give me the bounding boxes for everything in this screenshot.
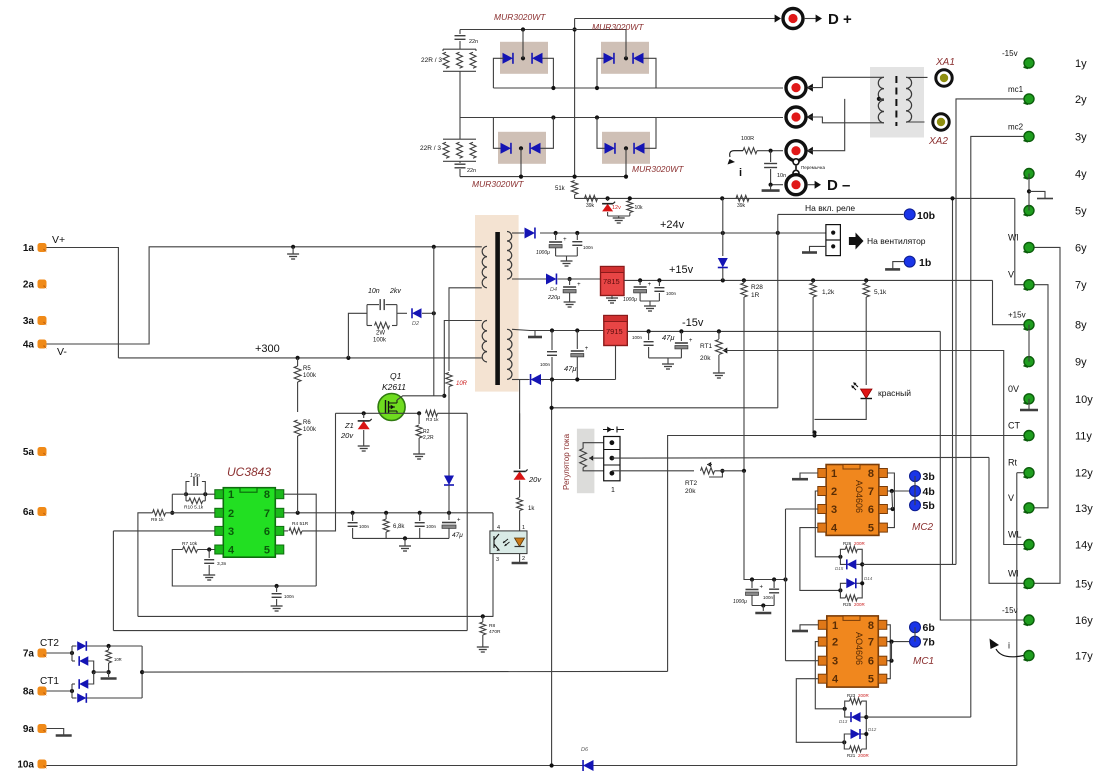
svg-text:4y: 4y [1075,169,1087,181]
svg-text:100k: 100k [373,338,387,344]
svg-text:R23: R23 [847,693,856,698]
current arrow i top [730,151,743,157]
svg-text:20v: 20v [340,431,354,440]
svg-text:47μ: 47μ [452,532,463,539]
svg-text:6: 6 [868,656,874,668]
svg-text:3: 3 [832,656,838,668]
ground 100n loop [276,604,278,606]
ground Vcc caps [404,538,406,544]
capacitor 1000u +15v [639,280,641,285]
diode D15 [847,559,857,569]
svg-text:Z1: Z1 [344,421,354,430]
wire MC2 network output [862,563,956,565]
wire MC2 pin1 ground [800,473,818,479]
svg-text:20k: 20k [685,488,696,495]
resistor 51k [571,181,577,195]
wire R7 loop [172,550,316,587]
wire V+ from pad 1a [47,248,119,358]
wire CT 11y [668,436,1024,672]
svg-text:CT2: CT2 [40,638,59,649]
svg-text:6a: 6a [23,507,35,518]
ground -15v caps [667,358,669,362]
pad 9y [1024,357,1034,367]
wire drain stub [397,396,444,400]
svg-text:8: 8 [868,620,874,632]
wire 12y stub [1017,472,1024,474]
svg-text:8: 8 [868,468,874,480]
pad 4b [910,486,921,497]
zener Z1 20v [363,413,365,418]
CT2 branch vertical [71,646,73,661]
pad 16y [1024,615,1034,625]
svg-text:3a: 3a [23,316,35,327]
svg-text:7b: 7b [923,637,935,649]
transformer core [495,232,500,385]
wire winding top lead left [830,76,884,78]
svg-text:100k: 100k [303,373,317,379]
IC MC2 AO4606 [826,465,879,536]
diode D7 feedback [531,374,541,385]
svg-text:+: + [760,585,764,591]
svg-text:R28: R28 [751,284,763,291]
snubber box wires [366,305,368,326]
svg-text:+: + [585,346,589,352]
svg-text:R9 1k: R9 1k [151,517,164,523]
wire CT output to 11y riser [142,670,668,673]
wire +15v cap bus [640,300,659,302]
svg-text:47μ: 47μ [662,333,674,342]
wire snubber right to D2 [397,312,407,314]
wire pin3 [113,530,214,532]
svg-text:+: + [457,518,461,524]
RT2 wiper [707,462,711,467]
svg-text:4: 4 [831,523,838,535]
svg-text:Перемычка: Перемычка [801,165,825,170]
wire CS loop right vertical [466,413,468,630]
svg-text:AO4606: AO4606 [854,632,864,665]
pin1 compensation network [186,493,215,495]
svg-text:200R: 200R [854,602,866,607]
wire 6b-7b link [914,627,916,641]
svg-text:3: 3 [228,526,234,538]
capacitor 220u [568,277,572,281]
svg-text:12y: 12y [1075,468,1093,480]
pad 3b [910,471,921,482]
resistor R25 200R [845,595,857,601]
svg-text:CT: CT [1008,421,1020,431]
connector output 2 [786,78,806,98]
wire 22R bank to lower rail [459,71,461,117]
wire 100R to connector4 [757,150,783,152]
svg-text:D –: D – [827,177,850,194]
svg-text:5,1k: 5,1k [874,289,887,296]
current transformer box [870,67,924,138]
svg-text:7815: 7815 [603,277,620,286]
svg-text:2,2R: 2,2R [423,435,434,441]
svg-text:+15v: +15v [669,264,694,276]
wire mc1 2y to MC2 switch [956,99,1024,565]
resistor R9 1k [153,510,166,516]
wire bottom rail [47,765,1017,767]
capacitor 47u -15v [680,331,682,341]
svg-text:R21: R21 [847,753,856,758]
connector XA1 [936,70,952,86]
jumper stub at 5y [1029,191,1045,198]
wire MC2 pin6 join [887,508,892,510]
svg-text:13y: 13y [1075,503,1093,515]
capacitor 3.3n [208,550,210,559]
wire feedback left vertical [138,513,153,617]
wire block1 left lead [493,58,502,88]
capacitor 100n Vcc-b [419,513,421,521]
capacitor 100n -15v [648,331,650,340]
wire block4 left lead [597,118,605,149]
resistor R8 470R [481,614,485,618]
resistor R3 1k [426,410,438,416]
svg-text:6y: 6y [1075,242,1087,254]
svg-text:Q1: Q1 [390,371,402,381]
pad 14y [1024,540,1034,550]
svg-text:51k: 51k [555,186,566,192]
transformer band [475,215,519,392]
pad 1y [1024,58,1034,68]
resistor R26 200R [845,546,857,552]
svg-text:R6: R6 [303,420,311,426]
svg-text:D12: D12 [868,727,877,732]
wire 4y-5y link [1028,174,1030,211]
node D2 junction [432,311,436,315]
svg-text:K2611: K2611 [382,382,406,392]
wire CT output vertical [141,646,143,698]
wire primary upper-bottom lead to 10R bus [449,288,482,371]
wire secondary top lead [512,232,524,234]
wire reg mid to 15y [612,456,989,459]
svg-text:1a: 1a [23,243,35,254]
svg-text:7: 7 [868,486,874,498]
pad 5b [910,500,921,511]
CT2 diode lower [72,660,75,662]
svg-text:1R: 1R [751,292,760,299]
ground CT res [108,672,110,677]
wire +15v to 8y [993,280,1024,324]
connector output 3 [786,107,806,127]
svg-text:-15v: -15v [1002,49,1018,58]
svg-text:+300: +300 [255,343,280,355]
svg-text:47μ: 47μ [564,364,576,373]
wire primary lower-top lead [444,321,482,396]
capacitor 100n pin5 loop [275,584,279,588]
wire MC2 pin3 left [786,508,818,510]
wire 8y-9y link [1028,325,1030,362]
svg-text:10n: 10n [777,173,786,179]
capacitor 47u Vcc [448,513,450,520]
svg-text:2y: 2y [1075,94,1087,106]
wire 7915 bottom pin [615,346,617,380]
wire 7a CT2 [47,652,73,654]
wire secondary bottom lead [512,379,528,381]
svg-text:10k: 10k [635,205,644,211]
svg-text:+: + [563,237,567,243]
svg-text:3b: 3b [923,471,935,483]
svg-text:3y: 3y [1075,131,1087,143]
svg-text:11y: 11y [1075,431,1092,443]
svg-text:8: 8 [264,489,270,501]
svg-text:10R: 10R [114,657,122,662]
svg-text:5y: 5y [1075,206,1087,218]
svg-text:100R: 100R [741,136,754,142]
svg-text:V-: V- [57,346,67,358]
wire R4 to gate rail [302,413,336,531]
wire MC1 pin7 to 7b [887,641,909,643]
svg-text:mc1: mc1 [1008,85,1024,94]
svg-text:MC2: MC2 [912,522,934,533]
svg-text:16y: 16y [1075,615,1093,627]
wire Vcc cap bus [353,537,449,539]
resistor 39k #2 [720,196,724,200]
box Регулятор тока [577,429,595,494]
wire +300 rail [118,357,481,359]
wire feedback bottom rail [138,615,494,617]
wire secondary row3 lead [512,329,530,330]
svg-text:200R: 200R [858,753,870,758]
svg-text:5: 5 [868,674,874,686]
wire snubber left leg [348,313,367,358]
wire 10b [778,213,904,215]
svg-text:100n: 100n [540,362,551,367]
pad 12y [1024,468,1034,478]
resistor 1.2k [810,283,816,297]
svg-text:UC3843: UC3843 [227,465,271,479]
wire -15v rail [627,330,940,332]
wire reg bottom to RT2 [612,470,694,472]
svg-text:Wl: Wl [1008,232,1019,242]
svg-text:100n: 100n [666,291,677,296]
svg-text:15y: 15y [1075,578,1093,590]
svg-text:9y: 9y [1075,357,1087,369]
svg-text:5b: 5b [923,500,935,512]
regulator 7815 [601,267,625,296]
wire Vcc rail to opto pin4 [492,513,494,531]
svg-text:12v: 12v [612,205,621,211]
svg-text:7: 7 [264,508,270,520]
svg-text:7y: 7y [1075,280,1087,292]
svg-text:1y: 1y [1075,58,1087,70]
pad 11y [1024,431,1034,441]
svg-text:1,2k: 1,2k [822,289,835,296]
pad 10b [904,209,915,220]
MC1 diode network box [845,701,851,717]
svg-text:MC1: MC1 [913,656,934,667]
resistor RT2 20k [701,468,715,474]
wire CT2 lower to mid node [88,661,94,672]
wire rail to connector2 arrow [807,84,813,92]
zener 20v opto [514,471,526,479]
diode block tan box 1 [500,42,548,74]
wire XA1 lead [906,76,928,78]
fan arrow [849,233,864,250]
svg-text:10n: 10n [368,288,380,295]
svg-text:200R: 200R [854,541,866,546]
wire gate-source rail y=413.3 [336,412,422,414]
svg-text:4: 4 [497,525,500,531]
svg-text:100n: 100n [284,594,295,599]
CT1 branch vertical [71,684,73,698]
wire block3 right lead [541,118,554,149]
connector XA2 [933,114,949,130]
pad 2y [1024,94,1034,104]
svg-text:R5: R5 [303,366,311,372]
svg-text:22R / 3: 22R / 3 [421,57,442,64]
pad 10y [1024,394,1034,404]
resistor R5 100k [294,366,301,382]
svg-text:mc2: mc2 [1008,122,1024,131]
wire top group cathode rail y=29.5 [460,29,626,31]
pad 7b [910,636,921,647]
svg-text:i: i [1008,641,1010,651]
svg-text:R10 5.1k: R10 5.1k [184,505,204,511]
resistor 10k aux [628,196,632,200]
svg-text:7a: 7a [23,649,35,660]
diode D4 [546,274,556,285]
diode pair 1 (MUR3020WT) [503,53,513,64]
optocoupler U2 [490,531,527,554]
svg-text:2W: 2W [376,331,385,337]
pad 6b [910,622,921,633]
resistor 2W 100k [367,325,372,327]
svg-text:XA1: XA1 [935,57,955,68]
ground RT1 [718,371,720,373]
svg-text:1: 1 [831,468,837,480]
wire MC2 pin4 to network [800,528,841,591]
resistor R7 10k [183,547,198,553]
wire 10b riser [777,214,779,407]
diode block tan box 2 [601,42,649,74]
diode pair 2 (MUR3020WT) [604,53,614,64]
pad 3y [1024,131,1034,141]
resistor R28 1R [741,283,747,297]
diode pair 3 (MUR3020WT) [501,143,511,154]
connector reg [604,437,620,481]
svg-text:V+: V+ [52,234,65,246]
transformer secondary winding upper [507,232,512,242]
wire MC1 network output [866,716,971,718]
zener 12v [606,196,610,200]
wire anode rail y=88 to connector 2 [493,87,783,89]
ground 3.3n [208,573,210,575]
wire CT1 upper to mid node [88,672,94,684]
svg-text:D4: D4 [550,287,557,293]
ground bar under 10n [770,185,772,191]
svg-text:2: 2 [522,556,525,562]
wire lower cathode rail y=176.6 [460,176,626,178]
svg-text:+24v: +24v [660,219,685,231]
svg-text:RT1: RT1 [700,343,713,350]
wire riser to 0V bus [552,407,778,409]
IC MC1 AO4606 [827,616,879,687]
svg-text:R3 1k: R3 1k [426,417,439,423]
svg-text:R26: R26 [843,541,852,546]
ground aux [608,215,630,217]
resistor R2 2.2R [418,413,420,424]
svg-text:i: i [739,167,742,179]
node primary top / D2 bus [432,245,436,249]
arrow to D+ label [804,18,817,20]
svg-text:2a: 2a [23,280,35,291]
svg-text:39k: 39k [586,203,595,209]
svg-text:3,3n: 3,3n [217,561,227,567]
svg-text:100n: 100n [359,524,370,529]
transformer primary winding upper [482,246,487,256]
ground R2 [418,452,420,454]
wire vertical bus x=574.6 [574,19,576,177]
svg-text:6b: 6b [923,622,935,634]
svg-text:17y: 17y [1075,651,1093,663]
svg-text:4: 4 [832,674,839,686]
svg-text:V: V [1008,493,1014,503]
wire 8a CT1 [47,690,73,692]
svg-text:R25: R25 [843,602,852,607]
wire D4 to 7815 [558,278,602,280]
wire bottom row [541,379,616,381]
svg-text:D14: D14 [864,576,873,581]
pad 13y [1024,503,1034,513]
LED красный [861,389,873,399]
RT1 wiper wire to 14y [723,348,728,354]
svg-text:4a: 4a [23,340,35,351]
ground MC caps [762,606,764,612]
pad 17y [1024,651,1034,661]
wire MC2 pin7 to 4b [887,490,909,492]
svg-text:20v: 20v [528,475,542,484]
wire block3 left lead [493,118,500,149]
svg-text:R7 10k: R7 10k [182,541,198,547]
wire CT mid node [94,671,109,673]
svg-text:7915: 7915 [606,327,623,336]
svg-text:6,8k: 6,8k [393,524,405,530]
svg-text:D +: D + [828,11,852,28]
svg-text:CT1: CT1 [40,676,59,687]
wire relay lower stub [810,246,826,252]
connector D- [786,175,806,195]
resistor R23 200R [850,698,862,704]
wire lower group rail y=117.5 to connector 3 [460,117,783,119]
svg-text:На вентилятор: На вентилятор [867,236,926,246]
transistor Q1 K2611 [378,394,405,421]
wire transformer tap to connector4 arrow [807,147,813,155]
wire MC2 pin2 to network [815,491,840,557]
MC2 diode network box [840,549,846,564]
capacitor 10n 2kv [367,304,379,306]
wire LED joins CT wire [815,399,867,420]
wire block4 right lead [645,118,657,149]
svg-text:220μ: 220μ [547,295,560,301]
svg-text:+: + [648,282,652,288]
svg-text:2: 2 [228,508,234,520]
svg-text:4: 4 [228,545,235,557]
svg-text:6: 6 [868,504,874,516]
svg-text:10b: 10b [917,210,935,222]
svg-text:MUR3020WT: MUR3020WT [494,12,546,22]
wire 10n to D- connector [771,184,783,186]
svg-text:100n: 100n [426,524,437,529]
pad 15y [1024,578,1034,588]
svg-text:WL: WL [1008,530,1022,540]
pad 5y [1024,206,1034,216]
current transformer core dashed [895,76,897,126]
svg-text:+: + [689,338,693,344]
transformer secondary winding lower [507,329,512,339]
svg-text:200R: 200R [858,693,870,698]
